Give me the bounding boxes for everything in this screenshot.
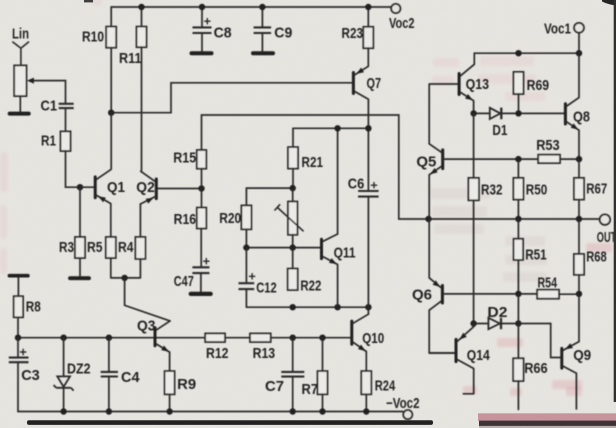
scan artifact: top-right corner blob: [602, 0, 616, 6]
wire Q2 collector slant to R11: [141, 47, 155, 181]
wire R50 bottom lead: [517, 200, 519, 219]
wire Q9 emitter slant: [563, 294, 579, 350]
junction dots on top rail: [138, 4, 371, 10]
wire D2 row to Q9 base: [518, 324, 560, 358]
wire C8 top lead: [201, 7, 203, 27]
capacitor C4: [101, 372, 118, 377]
wire C6 bottom lead: [367, 197, 369, 308]
wire DZ2 bottom lead: [63, 389, 65, 412]
bleed pink left margin: [0, 0, 102, 274]
resistor R10: [106, 27, 116, 48]
wire C4 top lead: [108, 338, 110, 372]
wire C3 to bottom rail: [17, 363, 19, 412]
wire Q14 base link: [429, 352, 454, 354]
wire Q7 collector slant: [355, 92, 369, 129]
wire R32 top lead: [473, 113, 475, 177]
wire Q5 base to R53: [444, 158, 538, 160]
wire Q10 collector lead: [367, 307, 369, 314]
resistor R1: [61, 131, 71, 151]
terminal -Voc2: [403, 410, 412, 419]
Q14 emitter arrow (PNP): [459, 333, 466, 340]
junction node input bias: [77, 184, 83, 190]
transistor Q2: [155, 179, 158, 199]
wire tail node to Q3 collector: [125, 278, 170, 321]
terminal OUT: [600, 214, 610, 224]
Q2 emitter arrow (PNP): [146, 198, 154, 204]
wire DZ2 top lead: [63, 338, 65, 377]
transistor Q10: [350, 321, 353, 344]
junction dots Voc1 rail: [515, 50, 582, 56]
junction dots VAS emitter row: [290, 304, 372, 310]
resistor R13: [250, 333, 271, 342]
resistor R20: [241, 205, 251, 229]
wire R67 bottom lead: [578, 200, 580, 219]
wire R32 bottom through rail to D2: [473, 200, 475, 323]
wire Q1 emitter slant: [97, 195, 111, 237]
wire Q9 collector slant and stub: [563, 366, 576, 409]
junction dots D2 row: [470, 320, 521, 326]
wire R21 bottom to trimmer node: [246, 169, 293, 189]
junction dots Q11 base row: [243, 244, 296, 250]
capacitor C1: [59, 104, 74, 108]
resistor R22: [288, 269, 298, 290]
resistor R53: [538, 155, 560, 163]
junction node R10/Q1 collector: [108, 110, 114, 116]
resistor R9: [165, 371, 175, 394]
transistor Q8: [564, 104, 567, 124]
wire C1 to R1: [65, 108, 67, 131]
wire input node to Q1 base: [80, 186, 94, 188]
pot wiper arrow: [27, 78, 34, 84]
resistor R54: [537, 290, 559, 299]
transistor Q9: [560, 348, 563, 368]
resistor R3: [75, 237, 85, 258]
junction dots bottom rail: [60, 408, 369, 414]
wire R12-R13 link: [225, 337, 250, 339]
wire C3 top lead: [17, 338, 19, 358]
wire R20 top lead: [245, 188, 247, 205]
capacitor C7: [281, 372, 304, 377]
ground above R8: [9, 274, 28, 278]
wire C9 to ground: [261, 33, 263, 51]
wire R68 leads: [578, 219, 580, 294]
wire C7 bottom lead: [292, 377, 294, 412]
Q6 emitter arrow (PNP): [433, 280, 441, 287]
wire R67 top lead: [578, 159, 580, 178]
bleed gray-pink column mid right: [430, 188, 547, 282]
junction dots output rail: [425, 216, 582, 222]
wire Q2 emitter slant: [140, 197, 155, 237]
ground below potentiometer: [10, 112, 29, 116]
Q11 emitter arrow (NPN): [329, 258, 337, 264]
wire R15 bottom lead: [201, 169, 203, 189]
wire Q3 collector slant: [156, 321, 170, 330]
potentiometer volume: [14, 65, 26, 96]
transistor Q5: [441, 150, 444, 169]
scan artifact: bottom-right pink band: [478, 413, 616, 421]
wire R51/R54 node down to D2 and R66: [517, 294, 519, 358]
resistor R15: [197, 150, 207, 169]
wire Q10 emitter slant: [353, 342, 366, 371]
transistor Q14: [455, 339, 458, 361]
Q9 emitter arrow (PNP): [565, 343, 573, 349]
transistor Q7: [352, 73, 355, 94]
Q5 emitter arrow (NPN): [430, 168, 438, 174]
ground below R3: [70, 276, 89, 280]
wire R8 to bias bus: [17, 317, 19, 337]
resistor R16: [197, 208, 207, 229]
wire R10 top lead: [110, 7, 112, 27]
Q13 emitter arrow (NPN): [465, 94, 473, 100]
wire R9 bottom lead: [169, 394, 171, 411]
bleed pink text rows upper right: [432, 56, 545, 101]
wire R20 bottom / Q11 base row: [246, 229, 320, 247]
junction node R21 trimmer: [290, 185, 296, 191]
wire net A: R10 bottom to Q7 base: [111, 48, 352, 113]
capacitor C47: [192, 267, 209, 273]
resistor R32: [468, 178, 479, 200]
wire Q3 emitter slant: [156, 344, 169, 371]
wire Q14 collector slant and stub: [457, 360, 473, 394]
capacitor C12: [239, 283, 255, 289]
wire Q11 emitter slant: [323, 257, 338, 308]
wire Q13 emitter slant: [461, 92, 474, 113]
junction dots Q10 base row: [290, 335, 326, 341]
wire Q6 emitter slant: [429, 219, 441, 288]
scan artifact: right edge border: [614, 0, 616, 402]
wire net A down to Q1 collector: [110, 113, 112, 169]
resistor R7: [318, 371, 328, 394]
resistor R50: [513, 178, 523, 200]
junction dots VAS node: [334, 125, 371, 131]
wire Q13 base to Q5 collector: [429, 84, 457, 144]
node Lin input terminal symbol: [12, 42, 29, 66]
wire R16 top lead: [201, 189, 203, 208]
wire Q8 collector slant: [567, 53, 579, 106]
resistor R11: [137, 27, 147, 48]
capacitor C9: [254, 27, 272, 33]
junction dots R53 row: [515, 156, 582, 162]
wire net B: R15 top feedback to output rail: [202, 115, 600, 219]
wire R7 bottom lead: [322, 394, 324, 411]
wire +Voc1 rail: [474, 52, 579, 54]
wire Q8 emitter slant: [567, 122, 579, 159]
capacitor C3: [9, 358, 29, 363]
wire R69 bottom lead: [518, 94, 520, 113]
wire R13 to Q10 base: [271, 337, 350, 339]
wire R23 top lead: [367, 7, 369, 27]
junction node R5 R4 tail: [121, 275, 127, 281]
Q1 emitter arrow (PNP): [98, 196, 106, 202]
resistor R51: [514, 239, 524, 260]
transistor Q13: [458, 74, 461, 95]
resistor R21: [288, 147, 298, 169]
wire R24 bottom lead: [365, 394, 367, 411]
wire Q1 collector slant: [97, 169, 112, 179]
resistor R69: [514, 72, 524, 94]
wire Q5 emitter slant: [429, 166, 441, 219]
trimmer preset resistor (bias adjust): [288, 202, 297, 235]
resistor R12: [205, 333, 225, 342]
ground below C47: [191, 292, 211, 296]
wire bias bus: [18, 337, 205, 339]
wire C9 top lead: [261, 7, 263, 27]
wire +Voc2 top rail: [111, 6, 391, 8]
wire R50 top lead: [517, 159, 519, 178]
ground below C8: [192, 51, 212, 55]
resistor R68: [574, 254, 584, 275]
resistor R24: [361, 371, 371, 394]
wire Q14 emitter slant: [457, 324, 473, 342]
Q8 emitter arrow (NPN): [571, 123, 579, 129]
wire R66 bottom stub: [517, 381, 519, 410]
scan artifact: top-left dash: [84, 0, 93, 2]
wire D2 cathode link: [502, 323, 518, 325]
wire D1 cathode to Q8 base: [502, 112, 564, 114]
wire R51 leads: [517, 219, 519, 294]
wire Q2 base to R15/R16 node: [158, 188, 202, 190]
resistor R4: [135, 237, 145, 259]
wire R53 to Q8 emitter node: [560, 158, 579, 160]
Q3 emitter arrow (NPN): [161, 346, 169, 352]
wire Voc1 lead: [578, 33, 580, 54]
wire ground to R8: [17, 278, 19, 297]
wire C8 to ground: [201, 33, 203, 51]
wire D1 anode link: [474, 112, 490, 114]
resistor R67: [574, 178, 584, 200]
terminal Voc1: [574, 23, 584, 33]
junction dots bias bus: [15, 335, 112, 341]
wire R23 to Q7 emitter: [367, 48, 369, 66]
wire Q13 collector slant: [461, 53, 475, 76]
resistor R23: [363, 27, 373, 48]
wire C6 top lead: [367, 128, 369, 190]
wire R54 right lead: [559, 293, 579, 295]
wire trimmer top lead: [292, 188, 294, 201]
wire D2 anode link: [474, 323, 489, 325]
wire VAS collector node: [293, 127, 368, 129]
transistor Q6: [441, 286, 444, 304]
transistor Q11: [320, 239, 323, 258]
wire R11 top lead: [141, 7, 143, 27]
wire Q6 collector slant: [429, 301, 454, 353]
wire R21 top lead: [292, 128, 294, 147]
wire -Voc2 bottom rail: [18, 412, 405, 413]
wire R3 to ground: [79, 258, 81, 276]
wire R1 to input node: [66, 151, 81, 187]
capacitor C6: [358, 191, 379, 197]
junction node Q2 base R15 R16: [198, 185, 204, 191]
Q10 emitter arrow (NPN): [358, 345, 366, 352]
wire pot to ground: [19, 96, 21, 111]
wire C12 top lead: [245, 248, 247, 283]
wire R7 top lead: [322, 338, 324, 371]
wire Q7 emitter slant: [355, 66, 369, 75]
resistor R8: [14, 296, 23, 317]
junction dots D1 row: [470, 110, 521, 116]
wire R3 top lead: [79, 187, 81, 237]
wire pot wiper to C1: [31, 81, 66, 104]
wire C47 to ground: [200, 273, 202, 291]
resistor R66: [513, 358, 523, 381]
capacitor C8: [193, 27, 212, 33]
Q7 emitter arrow (PNP): [356, 68, 364, 74]
wire Q11 collector slant: [323, 234, 338, 241]
scan artifact: bottom black strip: [27, 420, 433, 425]
wire C12 bottom / VAS emitter row: [246, 289, 368, 307]
transistor Q3: [154, 328, 157, 346]
bleed pink marks lower right: [463, 243, 612, 396]
wire Q6 base / R54 row: [444, 293, 537, 295]
wire R16 to C47: [200, 229, 202, 267]
wire Q10 collector slant: [353, 314, 368, 323]
wire Q11 collector lead: [337, 128, 339, 234]
transistor Q1: [94, 177, 97, 198]
wire R5 R4 common: [111, 258, 141, 278]
wire R22 top lead: [292, 248, 294, 269]
wire C7 top lead: [292, 338, 294, 372]
wire trimmer bottom lead: [292, 235, 294, 248]
wire Q5 collector slant: [429, 144, 441, 152]
wire C4 bottom lead: [108, 377, 110, 412]
resistor R5: [106, 237, 116, 258]
terminal Voc2: [391, 4, 400, 13]
ground below C9: [253, 51, 273, 55]
junction dots R54 row: [515, 291, 582, 297]
